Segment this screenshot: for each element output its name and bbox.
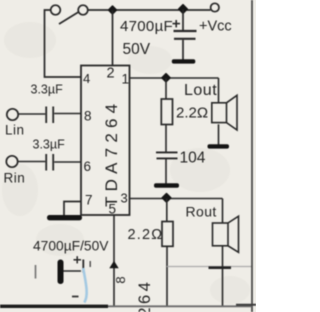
pin 2 label: [107, 66, 115, 82]
value label 2.2ohm (R1): [176, 105, 208, 122]
node: junction on pin 3 rail: [162, 194, 171, 203]
capacitor C2 3.3uF: [46, 107, 53, 124]
pen mark (cyan): [83, 268, 86, 303]
svg-text:4700µF: 4700µF: [120, 18, 173, 35]
svg-text:Rout: Rout: [186, 204, 217, 220]
pin 4 label: [83, 71, 90, 86]
pin 6 label: [84, 159, 92, 174]
svg-text:Lin: Lin: [5, 123, 25, 138]
wire: left supply branch from switch down to pin 4: [45, 10, 81, 77]
value label 3.3uF (C2): [31, 83, 64, 97]
svg-text:50V: 50V: [123, 41, 151, 58]
frame bottom border: [0, 305, 256, 308]
wire: LS1 to ground: [218, 124, 220, 144]
wire: switch to +Vcc rail: [88, 9, 211, 11]
speaker LS1: [212, 95, 237, 130]
pin 5 label: [109, 202, 117, 217]
svg-text:6: 6: [84, 159, 92, 174]
svg-text:4700µF/50V: 4700µF/50V: [33, 239, 109, 254]
wire: Rin to C3: [18, 161, 46, 163]
plus sign of C5: [74, 256, 82, 263]
minus mark: [72, 296, 79, 298]
svg-text:2.2Ω: 2.2Ω: [176, 105, 208, 122]
ground tick for LS2: [209, 266, 232, 269]
node: junction at C1: [179, 5, 188, 14]
wire: pin 5 down to bottom edge: [113, 216, 115, 307]
pin 8 label of U2 (rotated): [113, 276, 128, 283]
svg-text:TDA7264: TDA7264: [102, 99, 121, 207]
terminal Lin: [5, 109, 25, 138]
wire: R1 to C4: [165, 125, 167, 153]
svg-text:Rin: Rin: [4, 171, 26, 186]
capacitor C5 positive plate: [82, 260, 84, 273]
label Rout: [186, 204, 217, 220]
capacitor C1 4700uF: [174, 10, 197, 60]
value label 3.3uF (C3): [33, 138, 66, 152]
value label 2.2ohm (R2): [128, 227, 164, 243]
wire: pin 1 output rail: [130, 77, 219, 79]
wire: LS2 down across ground tick to bottom: [222, 246, 224, 306]
ground for pin 7: [47, 215, 82, 220]
wire: C2 to pin 8: [54, 113, 80, 115]
svg-text:7: 7: [85, 193, 93, 208]
pin 7 label: [85, 193, 93, 208]
stray vertical mark left of C5: [35, 265, 37, 279]
svg-text:Lout: Lout: [184, 82, 217, 99]
wire: C4 to ground: [165, 159, 167, 184]
svg-text:5: 5: [109, 202, 117, 217]
capacitor C3 3.3uF: [46, 154, 53, 171]
value label 104: [180, 150, 206, 167]
svg-text:8: 8: [84, 109, 92, 124]
wire: junction down to R2: [166, 199, 168, 222]
capacitor C4 104: [156, 152, 178, 158]
resistor R1 2.2 ohm: [161, 99, 172, 125]
svg-text:8: 8: [113, 276, 128, 283]
svg-text:1: 1: [122, 72, 130, 87]
pin 8 label: [84, 109, 92, 124]
ground for C1: [172, 59, 196, 63]
plus sign of C1: [173, 20, 181, 27]
wire: pin 3 output rail: [130, 198, 223, 200]
wire: rail down to speaker LS1: [218, 78, 220, 103]
op-amp IC U2 partial text 7264 (rotated): [136, 279, 154, 312]
value label 4700uF 50V: [120, 18, 173, 58]
capacitor C5 electrolytic negative plate: [58, 260, 64, 285]
node: arrow junction on pin 5 wire: [109, 261, 118, 269]
terminal Rin: [4, 156, 26, 186]
resistor R2 2.2 ohm: [162, 222, 173, 247]
wire: pin 2 supply drop: [112, 10, 114, 65]
frame right border: [251, 0, 253, 312]
ground for C4: [154, 183, 179, 188]
node: junction on pin 1 rail: [162, 74, 170, 82]
svg-text:3: 3: [121, 191, 128, 206]
wire: pin 7 to ground: [64, 202, 81, 216]
wire: faint horizontal net at bottom: [167, 266, 252, 268]
wire: R2 down to bottom edge: [166, 246, 168, 306]
op-amp IC U1 TDA7264 body: [81, 66, 130, 216]
ground for LS1: [208, 144, 230, 148]
switch S1: [51, 5, 88, 24]
wire: rail down to speaker LS2: [222, 199, 224, 224]
stray tick mark right of C5: [89, 261, 91, 267]
wire: C3 to pin 6: [54, 161, 80, 163]
pin 1 label: [122, 72, 130, 87]
speaker LS2: [213, 216, 239, 252]
terminal +Vcc: [199, 3, 232, 34]
svg-text:2.2Ω: 2.2Ω: [128, 227, 164, 243]
svg-text:3.3µF: 3.3µF: [33, 138, 66, 152]
label Lout: [184, 82, 217, 99]
node: junction at pin2 drop: [109, 6, 117, 14]
wire: junction down to R1: [165, 78, 167, 99]
pin 3 label: [121, 191, 128, 206]
svg-text:+Vcc: +Vcc: [199, 19, 232, 35]
wire: Lin to C2: [18, 113, 45, 115]
wire: C5 lead: [64, 270, 82, 272]
svg-text:2: 2: [107, 66, 115, 82]
value label 4700uF/50V: [33, 239, 109, 254]
svg-text:3.3µF: 3.3µF: [31, 83, 64, 97]
svg-text:104: 104: [180, 150, 206, 167]
svg-text:4: 4: [83, 71, 90, 86]
